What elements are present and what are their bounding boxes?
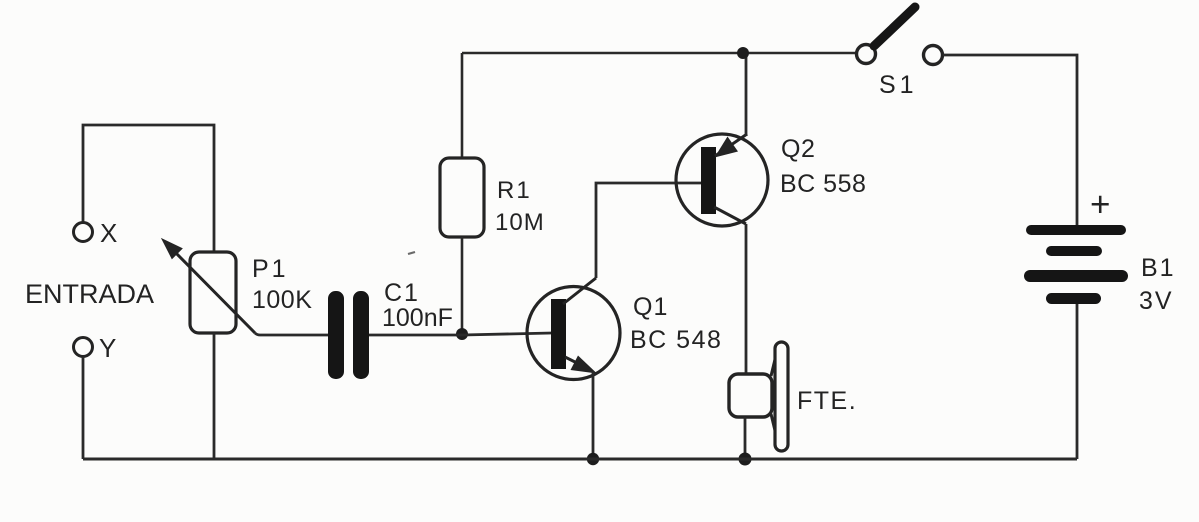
transistor Q2	[676, 134, 768, 226]
potentiometer P1	[162, 239, 255, 333]
terminal X	[74, 223, 93, 242]
label R1 value	[495, 177, 545, 236]
label Q2 value	[780, 135, 866, 198]
svg-text:C1: C1	[384, 279, 420, 307]
svg-text:Y: Y	[99, 333, 116, 363]
svg-text:FTE.: FTE.	[797, 387, 857, 415]
battery B1	[1024, 185, 1128, 304]
wire top rail from R1 top to switch S1	[462, 52, 856, 55]
speaker FTE.	[729, 342, 788, 451]
wire input top from X up and over to P1	[83, 125, 214, 252]
terminal Y	[74, 338, 93, 357]
label P1 value	[252, 255, 312, 314]
capacitor C1	[328, 291, 369, 379]
label FTE.	[797, 387, 857, 415]
wire C1 to Q1 base	[369, 333, 552, 335]
switch S1	[857, 7, 943, 65]
resistor R1	[440, 158, 484, 237]
label X	[100, 218, 117, 248]
svg-text:Q2: Q2	[781, 135, 815, 163]
node speaker / bottom rail	[739, 453, 752, 466]
node junction R1/C1/Q1-base	[456, 328, 468, 340]
wire Q2 emitter up to top rail	[745, 53, 748, 136]
svg-text:P1: P1	[252, 255, 289, 283]
svg-text:BC 558: BC 558	[780, 170, 866, 198]
svg-text:3V: 3V	[1139, 287, 1174, 315]
wire Y terminal down to bottom rail	[82, 357, 85, 459]
svg-text:ENTRADA: ENTRADA	[25, 279, 154, 309]
svg-text:+: +	[1090, 185, 1110, 224]
wire R1 top vertical	[461, 53, 464, 158]
node Q1 emitter / bottom rail	[587, 453, 599, 465]
label Y	[99, 333, 116, 363]
wire P1 bottom to bottom rail	[213, 333, 216, 459]
wire bottom rail	[83, 458, 1077, 461]
svg-text:R1: R1	[497, 177, 532, 204]
svg-text:100K: 100K	[252, 286, 312, 314]
svg-text:10M: 10M	[495, 209, 545, 236]
label C1 value	[382, 279, 453, 332]
wire switch to battery top	[943, 55, 1077, 225]
wire Q2 collector down to speaker	[745, 224, 746, 374]
svg-text:X: X	[100, 218, 117, 248]
svg-text:B1: B1	[1141, 254, 1176, 282]
svg-text:100nF: 100nF	[382, 304, 453, 332]
wire R1 bottom vertical to signal node	[461, 237, 464, 334]
label B1 value	[1139, 254, 1176, 315]
wire battery bottom to rail corner	[1076, 304, 1079, 459]
wire Q1 collector up and to Q2 base	[596, 183, 703, 278]
svg-text:S1: S1	[879, 71, 918, 99]
node top rail / Q2 emitter	[737, 47, 749, 59]
svg-text:BC 548: BC 548	[630, 326, 722, 354]
wire Q1 emitter down to bottom rail	[592, 371, 595, 459]
label S1	[879, 71, 918, 99]
label Q1 value	[630, 293, 722, 354]
wire P1 wiper to C1	[255, 333, 330, 335]
transistor Q1	[527, 278, 620, 380]
label ENTRADA	[25, 279, 154, 309]
scan speck (artifact)	[408, 252, 415, 254]
svg-text:Q1: Q1	[633, 293, 668, 321]
wire speaker bottom to rail	[744, 417, 747, 459]
